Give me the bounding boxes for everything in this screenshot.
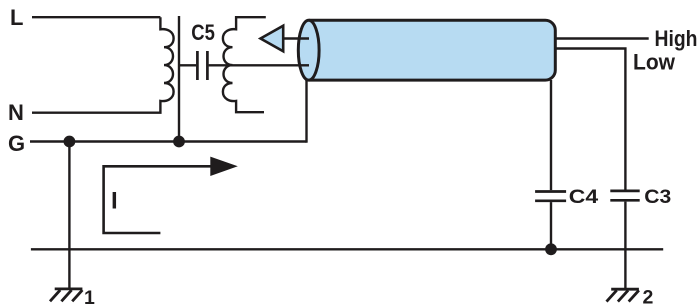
ground symbol 2: [607, 289, 639, 301]
probe body left end cap (ellipse): [298, 20, 319, 80]
svg-text:Low: Low: [633, 50, 676, 75]
wire C3 lower lead to ground 2: [624, 202, 626, 290]
transformer primary winding (left coil): [32, 17, 174, 113]
wire ground 1 drop: [68, 142, 70, 289]
transformer secondary winding (right coil): [223, 17, 266, 112]
junction dot G-ground1: [64, 136, 76, 148]
svg-text:1: 1: [84, 287, 95, 306]
capacitor C5: [197, 51, 207, 80]
wire C5 right lead to probe body: [209, 64, 309, 66]
capacitor C3: [610, 191, 639, 200]
wire probe tip line: [283, 37, 309, 39]
svg-text:High: High: [655, 26, 698, 51]
ground symbol 1: [50, 289, 82, 301]
wire C5 lead tip inside end cap: [300, 64, 309, 66]
junction dot C4-bottom line: [545, 243, 557, 255]
transformer core/shield line: [178, 16, 180, 142]
wire G line: [30, 140, 307, 142]
wire C4 lower lead: [550, 202, 552, 249]
svg-text:C3: C3: [644, 186, 671, 208]
wire probe shield to G: [305, 80, 307, 143]
current arrow head: [210, 157, 238, 176]
svg-text:I: I: [111, 188, 118, 215]
wire High output: [554, 37, 649, 39]
wire bottom earth line: [31, 248, 663, 250]
svg-text:N: N: [8, 100, 24, 125]
wire C4 branch from probe: [550, 80, 552, 190]
capacitor C4: [535, 192, 566, 201]
junction dot G-core: [173, 136, 185, 148]
svg-text:2: 2: [643, 287, 654, 306]
probe coax body (cylinder): [298, 20, 555, 80]
wire L line: [32, 16, 160, 18]
svg-text:L: L: [10, 5, 23, 30]
current loop I: [104, 166, 212, 233]
wire C5 left lead: [179, 64, 196, 66]
svg-text:G: G: [8, 131, 25, 156]
svg-text:C4: C4: [569, 186, 599, 208]
wire Low output to C3: [555, 49, 626, 190]
svg-text:C5: C5: [191, 20, 215, 45]
probe tip arrowhead: [261, 26, 284, 52]
